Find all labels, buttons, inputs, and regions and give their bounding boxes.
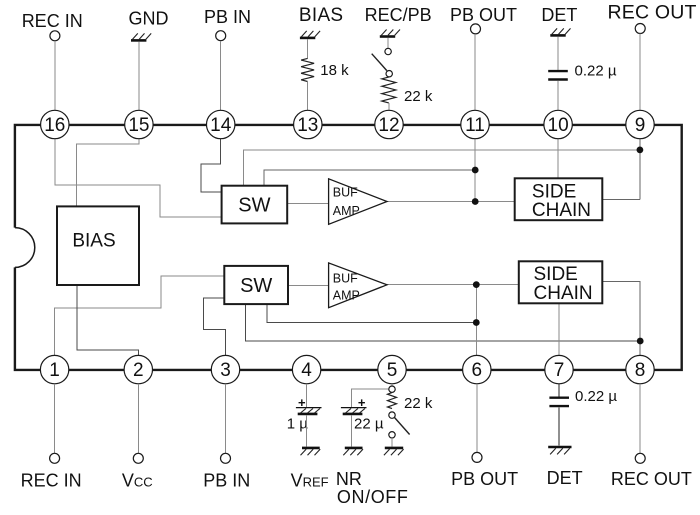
svg-text:18 k: 18 k — [320, 62, 349, 79]
pin 3 — [211, 355, 239, 383]
svg-text:1 µ: 1 µ — [287, 415, 309, 432]
wire pin3 to terminal — [225, 384, 227, 454]
wire terminal to pin 16 — [54, 41, 56, 110]
wire pin3 to SW2 lower input — [204, 298, 226, 355]
wire SW2 bottom to pin8 net — [246, 304, 641, 341]
svg-text:REC OUT: REC OUT — [608, 2, 697, 24]
wire terminal to pin 11 — [474, 34, 476, 110]
ground below 22u cap — [343, 448, 363, 455]
svg-text:CHAIN: CHAIN — [534, 283, 593, 304]
ground below NR switch — [384, 448, 404, 455]
pin 4 — [292, 355, 320, 383]
svg-text:11: 11 — [465, 115, 485, 136]
block BIAS — [57, 206, 139, 285]
pin 8 — [626, 355, 654, 383]
wire pin1 to SW2 upper input — [55, 276, 225, 355]
junction dot pin6 wire — [473, 319, 480, 326]
pin 16 — [41, 110, 69, 138]
svg-text:6: 6 — [472, 360, 483, 381]
terminal PB OUT bottom — [472, 452, 482, 462]
wire capacitor to pin 10 — [557, 81, 559, 111]
switch REC/PB contact upper — [385, 48, 391, 54]
op-amp BUF AMP upper — [329, 179, 387, 225]
svg-text:DET: DET — [541, 5, 577, 25]
junction dot pin8 net — [637, 338, 644, 345]
wire pin1 to terminal — [54, 384, 56, 454]
capacitor C 0.22u bottom — [549, 398, 569, 406]
resistor R 18k — [301, 58, 314, 81]
junction dot pin6 buf output — [473, 281, 480, 288]
terminal REC OUT top — [635, 24, 645, 34]
svg-text:BUF: BUF — [333, 271, 358, 285]
wire pin16 to SW1 lower input — [55, 139, 222, 217]
pin 9 — [626, 110, 654, 138]
block SIDE CHAIN upper — [515, 178, 603, 221]
svg-text:REC IN: REC IN — [22, 11, 83, 31]
wire resistor to pin 13 — [307, 82, 309, 111]
wire SIDE CHAIN 2 output to pin 8 — [602, 281, 640, 355]
terminal REC IN bottom — [50, 453, 60, 463]
svg-text:15: 15 — [128, 115, 149, 136]
svg-text:AMP: AMP — [333, 288, 360, 302]
pin 14 — [207, 110, 235, 138]
wire BIAS to pin2 — [77, 285, 138, 355]
pin 15 — [125, 110, 153, 138]
terminal REC OUT bottom — [635, 453, 645, 463]
wire pin4 to capacitor 1u — [306, 384, 308, 407]
pin 13 — [294, 110, 322, 138]
wire SW2 to BUF2 input — [288, 285, 329, 287]
svg-text:16: 16 — [44, 115, 65, 136]
wire branch pin5 to 22u cap — [352, 389, 389, 407]
terminal REC IN top — [50, 31, 60, 41]
capacitor C 0.22u top — [548, 71, 568, 79]
wire capacitor to ground — [558, 407, 560, 445]
terminal PB IN bottom — [221, 453, 231, 463]
pin 10 — [544, 110, 572, 138]
svg-text:PB OUT: PB OUT — [451, 469, 518, 489]
svg-text:SW: SW — [240, 275, 272, 297]
pin 5 — [378, 355, 406, 383]
pin 12 — [375, 110, 403, 138]
wire A SW1 to pin9 net — [244, 150, 640, 186]
IC package outline with pin-1 notch — [15, 125, 682, 370]
svg-text:22 k: 22 k — [404, 395, 433, 412]
svg-text:PB IN: PB IN — [203, 471, 250, 491]
svg-text:5: 5 — [387, 360, 398, 381]
wire BUF1 output to SIDE CHAIN 1 — [387, 201, 515, 203]
wire B SW1 to pin11 net — [264, 170, 475, 186]
pin 6 — [463, 355, 491, 383]
wire pin7 to SIDE CHAIN 2 bottom — [558, 303, 560, 355]
wire terminal to pin 9 — [639, 34, 641, 111]
pin 1 — [40, 355, 68, 383]
wire pin5 to switch chain — [391, 384, 393, 386]
wire pin15 to BIAS top — [76, 139, 138, 207]
wire terminal to pin 14 — [220, 41, 222, 111]
wire BUF2 output to SIDE CHAIN 2 — [387, 284, 519, 286]
wire capacitor to ground — [306, 415, 308, 446]
block SW upper — [222, 186, 288, 224]
terminal PB OUT top — [471, 24, 481, 34]
junction dot pin11 buf output — [472, 198, 479, 205]
terminal PB IN top — [216, 31, 226, 41]
capacitor C 22u polarized — [341, 395, 367, 414]
capacitor C 1u polarized — [296, 395, 322, 414]
wire pin11 vertical — [474, 139, 476, 202]
wire SW2 bottom to pin6 net — [267, 304, 476, 322]
svg-text:9: 9 — [635, 115, 646, 136]
svg-text:REC IN: REC IN — [21, 471, 82, 491]
pin 7 — [545, 355, 573, 383]
wire 22u cap to ground — [351, 415, 353, 446]
wire pin2 to terminal — [137, 384, 139, 454]
svg-text:CHAIN: CHAIN — [532, 200, 591, 221]
wire pin6 vertical — [475, 285, 477, 356]
wire contact to ground — [391, 438, 393, 447]
svg-text:2: 2 — [133, 360, 144, 381]
svg-text:SW: SW — [238, 195, 270, 217]
terminal VCC — [133, 453, 143, 463]
switch REC/PB lever — [372, 54, 387, 71]
svg-text:DET: DET — [547, 468, 583, 488]
wire pin7 to capacitor — [558, 384, 560, 397]
svg-text:BIAS: BIAS — [72, 231, 115, 252]
svg-text:12: 12 — [378, 115, 399, 136]
ground REC/PB pin12 — [380, 30, 400, 37]
pin 11 — [461, 110, 489, 138]
ground DET pin10 — [550, 28, 570, 35]
svg-text:PB IN: PB IN — [204, 7, 251, 27]
svg-text:13: 13 — [297, 115, 318, 136]
svg-text:14: 14 — [210, 115, 232, 136]
switch NR contact upper — [389, 386, 395, 392]
svg-text:REC OUT: REC OUT — [611, 469, 692, 489]
svg-text:4: 4 — [301, 360, 312, 381]
junction dot pin9 net — [637, 147, 644, 154]
wire pin8 to terminal — [639, 384, 641, 454]
svg-text:REC/PB: REC/PB — [365, 5, 432, 25]
op-amp BUF AMP lower — [329, 263, 387, 308]
switch NR contact lower — [389, 432, 395, 438]
ground GND pin15 — [131, 33, 151, 40]
svg-text:22 µ: 22 µ — [354, 415, 384, 432]
svg-text:AMP: AMP — [333, 204, 360, 218]
svg-text:3: 3 — [220, 360, 231, 381]
wire SW1 to BUF1 input — [287, 202, 328, 204]
block SIDE CHAIN lower — [519, 261, 603, 304]
wire gnd to switch — [387, 38, 389, 49]
wire gnd to pin 15 — [138, 42, 140, 111]
switch NR contact middle — [389, 412, 395, 418]
svg-text:10: 10 — [548, 115, 569, 136]
switch REC/PB contact lower — [386, 71, 392, 77]
ground below 1u cap — [301, 448, 321, 455]
wire SIDE CHAIN 1 output to pin 9 — [602, 139, 640, 200]
svg-text:0.22 µ: 0.22 µ — [575, 63, 617, 80]
svg-text:1: 1 — [49, 360, 60, 381]
pin-1 notch — [15, 228, 35, 268]
wire pin14 to SW1 upper input — [201, 139, 222, 192]
resistor R 22k bottom — [388, 393, 397, 409]
wire pin10 to SIDE CHAIN 1 top — [557, 139, 559, 179]
wire resistor to pin 12 — [388, 103, 390, 110]
block SW lower — [224, 266, 288, 304]
ground BIAS pin13 — [300, 31, 320, 38]
svg-text:PB OUT: PB OUT — [450, 5, 517, 25]
svg-text:0.22 µ: 0.22 µ — [575, 388, 617, 405]
pin 2 — [124, 355, 152, 383]
switch NR lever — [394, 417, 409, 434]
junction dot pin11 wireB — [472, 167, 479, 174]
wire gnd to resistor 18k — [307, 39, 309, 58]
svg-text:8: 8 — [635, 360, 646, 381]
ground below DET cap — [548, 447, 571, 454]
svg-text:BIAS: BIAS — [299, 5, 344, 26]
svg-text:22 k: 22 k — [404, 88, 433, 105]
svg-text:ON/OFF: ON/OFF — [337, 487, 409, 507]
wire pin6 to terminal — [476, 384, 478, 453]
wire gnd to capacitor — [557, 37, 559, 70]
svg-text:GND: GND — [129, 9, 169, 29]
resistor R 22k top — [382, 77, 396, 103]
svg-text:7: 7 — [554, 360, 565, 381]
svg-text:BUF: BUF — [333, 186, 358, 200]
